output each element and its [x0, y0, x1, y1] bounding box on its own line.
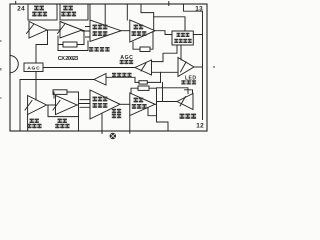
- wire rectifier output to T8 node: [157, 101, 178, 103]
- wire T8 lower tap: [148, 108, 157, 116]
- pin tick top right: [168, 2, 170, 6]
- resistor R1 T2 feedback: [63, 42, 77, 47]
- equalization text (bottom) line1: [112, 109, 116, 110]
- wire T3 output to T4 input: [121, 30, 130, 32]
- AGC amp text line2: [120, 60, 124, 61]
- T8 text record amplifier: [134, 98, 139, 100]
- rectifier text: [180, 114, 185, 116]
- op-amp T2 playback amplifier (top): [60, 22, 82, 39]
- wire junction up to AGC input: [160, 72, 162, 82]
- wire T6 feedback loop: [53, 92, 79, 131]
- wire T8 feedback loop: [131, 88, 157, 104]
- resistor R5 T8 feedback: [138, 86, 149, 90]
- record/play switch box: [172, 31, 193, 45]
- playback-amp label box B2: [60, 4, 88, 20]
- T7 text rec/play amplifier: [93, 97, 98, 99]
- equalization text (top): [89, 47, 93, 48]
- wire LED driver output: [194, 66, 203, 68]
- wire junction to AGC amp input: [152, 53, 178, 61]
- AGC detector box: [24, 63, 43, 72]
- wire AGC amp lower input: [152, 71, 179, 73]
- svg-text:CX 20023: CX 20023: [58, 56, 79, 62]
- wire T5 output to T6 input: [47, 104, 56, 106]
- circled watermark mark: [110, 133, 116, 139]
- wire T4 feedback loop: [133, 32, 153, 50]
- op-amp T4 record amplifier 2 (top right): [130, 20, 155, 42]
- op-amp T8 record amplifier 2 (bottom right): [130, 93, 155, 116]
- wire pin 13 jog to right bus: [184, 4, 203, 11]
- wire T5 output down along bottom: [48, 106, 79, 117]
- svg-text:AGC: AGC: [27, 66, 40, 72]
- wire switch box down to LED driver: [177, 45, 181, 60]
- pin 24 tick: [15, 1, 17, 4]
- resistor R3: [139, 81, 147, 84]
- T3 text rec/play amplifier: [93, 25, 98, 27]
- op-amp T10 reference voltage: [94, 74, 106, 86]
- op-amp T3 record/playback amplifier (top large): [90, 20, 121, 42]
- wire T8 to bottom pin stub: [129, 116, 131, 134]
- wire junction down to rectifier output node: [162, 82, 164, 101]
- wire switch box to right bus: [193, 34, 202, 36]
- op-amp T6 playback amplifier (bottom): [56, 96, 78, 115]
- op-amp LED driver: [178, 58, 194, 77]
- wire frame to T4 top corner: [126, 4, 128, 20]
- op-amp T7 record/playback amplifier (bottom large): [90, 90, 120, 119]
- op-amp T5 record amplifier (bottom): [28, 96, 47, 115]
- wire T4 node to record/play switch top: [154, 17, 185, 31]
- wire T3 input stubs: [82, 27, 90, 38]
- equalization text (bottom) line2: [112, 114, 116, 115]
- wire reference voltage output to left and down: [20, 80, 94, 132]
- wire T7 to bottom pin: [101, 114, 103, 134]
- wire top frame to T4 output node: [141, 4, 154, 30]
- LED driver text: [181, 80, 185, 81]
- scan noise specks: [0, 40, 2, 42]
- T4 text record amplifier: [134, 25, 139, 27]
- wire T8 output to bottom frame: [155, 102, 168, 131]
- IC package outline frame: [10, 4, 207, 131]
- svg-text:13: 13: [195, 6, 203, 13]
- wire R5 node to rectifier top input: [157, 88, 193, 94]
- wire right vertical bus: [202, 11, 204, 67]
- reference voltage text: [112, 73, 116, 74]
- wire frame to T3 top: [90, 4, 105, 25]
- wire right bus to pin 12: [202, 67, 204, 120]
- wire T1 output to T2 input: [47, 29, 60, 31]
- op-amp T1 record amplifier (top): [29, 22, 47, 39]
- record-amp label box B1: [28, 4, 57, 20]
- wire T4 output to switch box: [155, 31, 172, 35]
- wire R1 node to T3 lower input: [58, 41, 88, 51]
- switch box text line1: [177, 33, 181, 34]
- resistor R4 T4 feedback: [140, 47, 150, 52]
- svg-text:12: 12: [196, 123, 204, 130]
- resistor R2 T6 feedback: [53, 90, 67, 95]
- T6 text playback amp label: [58, 119, 62, 120]
- B1 text record amp label: [34, 6, 39, 8]
- op-amp T9 AGC amplifier: [135, 60, 152, 75]
- switch box text line2: [174, 39, 178, 40]
- package notch: [11, 56, 19, 73]
- wire T2 feedback loop: [58, 31, 84, 45]
- svg-text:24: 24: [17, 6, 25, 13]
- B2 text playback amp label: [63, 6, 67, 8]
- wire bottom pin to T5 input: [27, 115, 29, 132]
- wire AGC amp output to AGC box: [43, 67, 135, 69]
- wire T1 output down to AGC detector: [36, 31, 48, 64]
- wire T7 output to T8 input: [120, 103, 130, 105]
- wire T7 input stubs: [79, 100, 90, 108]
- wire reference voltage to resistor: [106, 77, 161, 82]
- op-amp rectifier (bottom right): [177, 94, 193, 110]
- wire AGC box down to T5: [35, 72, 37, 101]
- T5 text record amp label: [30, 119, 34, 120]
